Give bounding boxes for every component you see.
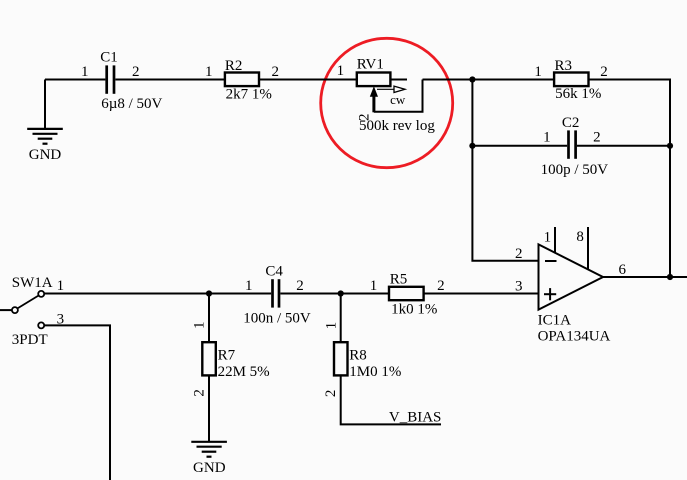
potentiometer RV1 — [357, 73, 405, 113]
wire (switch throw 1 to node) — [44, 293, 271, 295]
wire (R7 to ground) — [208, 375, 210, 441]
highlight circle (red annotation around RV1) — [321, 38, 453, 167]
svg-text:1: 1 — [370, 278, 378, 294]
wire (R3 to right rail) — [589, 80, 671, 278]
junction node (R8 top) — [338, 290, 344, 296]
switch SW1A — [12, 291, 44, 329]
resistor R2 — [225, 73, 259, 87]
svg-text:1k0 1%: 1k0 1% — [391, 301, 437, 317]
svg-text:2: 2 — [272, 64, 280, 80]
wire — [472, 145, 567, 147]
svg-text:2: 2 — [593, 129, 601, 145]
svg-text:OPA134UA: OPA134UA — [538, 328, 611, 344]
wire (node down to R8) — [340, 294, 342, 343]
svg-text:500k rev log: 500k rev log — [359, 118, 435, 134]
svg-text:IC1A: IC1A — [538, 313, 572, 329]
resistor R3 — [554, 73, 588, 87]
svg-text:1: 1 — [337, 63, 345, 79]
svg-text:2: 2 — [323, 390, 339, 398]
ground — [27, 80, 63, 144]
svg-text:22M 5%: 22M 5% — [218, 364, 270, 380]
wire — [423, 79, 555, 81]
wire (pin 1 power stub) — [554, 227, 556, 254]
wire (R8 to V_BIAS) — [341, 375, 441, 424]
svg-text:1: 1 — [205, 64, 213, 80]
ground — [191, 442, 227, 457]
svg-text:2: 2 — [296, 278, 304, 294]
capacitor C1 — [107, 65, 114, 93]
resistor R8 — [334, 342, 348, 375]
wire (node A vertical to op-amp inverting input) — [472, 80, 538, 261]
svg-text:2: 2 — [600, 64, 608, 80]
svg-text:100n / 50V: 100n / 50V — [243, 310, 311, 326]
resistor R5 — [389, 287, 424, 300]
junction node (C2 left) — [469, 143, 475, 149]
svg-text:1: 1 — [544, 229, 552, 245]
svg-text:1: 1 — [323, 322, 339, 330]
svg-text:2: 2 — [437, 278, 445, 294]
wire — [577, 145, 670, 147]
junction node A — [469, 76, 475, 82]
svg-text:R3: R3 — [555, 58, 573, 74]
junction node (C2 right) — [667, 143, 673, 149]
wire — [115, 79, 224, 81]
svg-text:R7: R7 — [218, 347, 236, 363]
svg-text:56k 1%: 56k 1% — [555, 86, 601, 102]
junction node (output) — [667, 274, 673, 280]
wire (pin 8 power stub) — [587, 227, 589, 270]
svg-text:R8: R8 — [349, 348, 367, 364]
svg-text:GND: GND — [29, 147, 62, 163]
svg-text:R2: R2 — [225, 58, 243, 74]
wire (RV1 terminal 3 stub) — [390, 79, 407, 81]
svg-text:2: 2 — [515, 246, 523, 262]
wire (op-amp output pin 6) — [603, 276, 687, 278]
svg-text:1: 1 — [57, 278, 65, 294]
svg-text:1: 1 — [543, 129, 551, 145]
wire (R5 to op-amp non-inverting input) — [424, 293, 539, 295]
svg-text:R5: R5 — [390, 271, 408, 287]
svg-text:1: 1 — [534, 64, 542, 80]
svg-text:RV1: RV1 — [357, 56, 384, 72]
svg-text:1M0 1%: 1M0 1% — [349, 364, 401, 380]
junction node (R7 top) — [206, 290, 212, 296]
svg-text:2: 2 — [132, 64, 140, 80]
wire (RV1 wiper to output) — [374, 80, 423, 112]
svg-text:3PDT: 3PDT — [12, 332, 48, 348]
wire (switch pole from left edge) — [0, 309, 12, 311]
wire — [45, 79, 105, 81]
wire — [259, 79, 357, 81]
wire — [280, 293, 389, 295]
svg-text:C4: C4 — [265, 264, 283, 280]
resistor R7 — [202, 342, 216, 375]
capacitor C4 — [273, 279, 280, 307]
svg-text:1: 1 — [192, 321, 208, 329]
svg-text:C2: C2 — [562, 115, 580, 131]
capacitor C2 — [569, 130, 576, 158]
svg-text:2: 2 — [192, 389, 208, 397]
svg-text:1: 1 — [81, 64, 89, 80]
wire (switch throw 3 down) — [44, 325, 110, 480]
svg-text:1: 1 — [245, 278, 253, 294]
svg-text:3: 3 — [57, 311, 65, 327]
svg-text:GND: GND — [193, 460, 226, 476]
svg-text:cw: cw — [390, 92, 406, 107]
wire (node down to R7) — [208, 294, 210, 343]
svg-text:C1: C1 — [100, 50, 118, 66]
op-amp IC1A triangle — [539, 244, 604, 309]
svg-text:6µ8 / 50V: 6µ8 / 50V — [101, 96, 162, 112]
svg-text:8: 8 — [576, 229, 584, 245]
svg-text:3: 3 — [515, 278, 523, 294]
op-amp plus input mark — [544, 288, 556, 300]
svg-text:100p / 50V: 100p / 50V — [541, 162, 609, 178]
svg-text:2k7 1%: 2k7 1% — [226, 86, 272, 102]
svg-text:V_BIAS: V_BIAS — [389, 409, 442, 425]
svg-text:6: 6 — [619, 262, 627, 278]
svg-text:SW1A: SW1A — [12, 275, 53, 291]
op-amp minus input mark — [545, 260, 557, 262]
